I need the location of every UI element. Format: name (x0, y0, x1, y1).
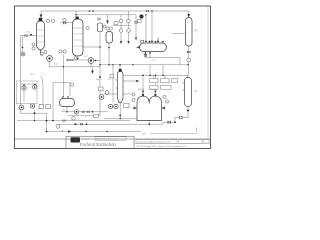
wire drop to column C-105 (188, 11, 190, 14)
drum V-104 horizontal (140, 43, 167, 52)
wire bottom run y131.5 (47, 131, 142, 133)
instrument box left of C-104 (110, 75, 114, 78)
wire drop to dome 2 (154, 75, 156, 90)
column C-106 (185, 78, 192, 107)
arrow drop x107.5 (106, 21, 109, 25)
bubbles top center on risers (119, 19, 123, 23)
junction dot y35.5 (30, 34, 32, 36)
svg-text:PK-2: PK-2 (30, 74, 36, 76)
wire valve branch y35.5 (21, 35, 37, 37)
wire to dome vessel side (120, 118, 137, 120)
wire C-106 feed stub (187, 74, 189, 78)
instrument bubble y118 (72, 117, 76, 121)
junction dot x46.5 y120.6 (46, 120, 48, 122)
left pump row bottom: pump P-106 (19, 105, 24, 110)
wire drop to column C-101 (40, 11, 42, 15)
wire left pump row links (21, 110, 47, 121)
wire top header y14.8 (76, 14, 136, 16)
junction dots various (145, 14, 146, 15)
wire bottom run y120.6 (17, 120, 130, 122)
pump P-103 (74, 110, 79, 115)
wire K nozzle riser (63, 55, 65, 97)
arrow down x92.5 (91, 71, 94, 75)
drum V-105 horizontal (60, 99, 75, 107)
wire drum V-104 nozzle drop x146 (145, 15, 147, 42)
border frame (15, 6, 211, 149)
small box x114 (114, 22, 118, 25)
instrument bubble near V-105 (70, 83, 73, 86)
wire column C-104 bottom (119, 103, 121, 116)
instrument box cluster right-center row1 (150, 79, 178, 83)
wire link y94 left of R-101 (104, 93, 132, 95)
wire valve chain y60 (66, 59, 88, 61)
wire arrow stub x92.5 (92, 67, 94, 71)
instrument bubbles top of C-101 (46, 19, 49, 22)
dome vessel R-101 body (137, 96, 162, 120)
arrow on y124.2 (75, 123, 79, 125)
tiny labels (26, 30, 198, 136)
wire drop x121 (120, 15, 122, 41)
column C-104 cap (119, 69, 122, 72)
wire C-105 side line y33.5 (172, 33, 186, 35)
wire riser x46.5 (46, 121, 48, 132)
wire x22.5 drop (22, 36, 24, 52)
junction dot y124.2 (86, 123, 88, 125)
junction dot x46.5 y131.5 (46, 131, 48, 133)
column C-104 center (118, 72, 124, 103)
wire link y25.5 (113, 25, 132, 27)
instrument bubbles left of R-101 (132, 93, 135, 102)
pump P-102 (88, 58, 94, 64)
wire drop to column C-104 cap (119, 65, 121, 69)
column C-101 (37, 21, 45, 50)
wire riser x34.5 (34, 110, 36, 121)
arrows at riser ends (120, 41, 122, 44)
instrument bubbles above P-101 (44, 51, 47, 54)
small box above title (95, 137, 126, 140)
wire center header y64.8 (100, 64, 189, 66)
title block frame (66, 135, 134, 137)
title block (66, 136, 211, 148)
title band top line (15, 138, 211, 140)
instrument box y114.5 (94, 114, 99, 117)
pump P-109 (33, 85, 37, 89)
svg-text:VE-4: VE-4 (96, 79, 102, 81)
wire drum V-104 nozzle stub x158 (157, 38, 159, 42)
equipment rect 1 (39, 105, 44, 109)
junction dot C-104 bottom (119, 115, 121, 117)
instrument box cluster right-center row2 (150, 85, 172, 89)
wire P-102 discharge link (94, 60, 100, 62)
instrument bubble y126 (56, 124, 60, 128)
instrument bubbles left of C-101 (32, 43, 35, 46)
wire column C-102 bottoms (77, 56, 79, 60)
wire valve leg right (175, 118, 179, 123)
wire column C-105 bottom (188, 46, 190, 65)
arrows into domes (142, 91, 144, 94)
wire enclosure inner vertical (23, 90, 25, 101)
column C-101 boot line (40, 50, 42, 53)
column C-102 cap (75, 17, 78, 20)
small valve cluster x124 (124, 104, 130, 108)
small box right of risers (138, 20, 142, 23)
junction dots V-104 outlets (145, 52, 147, 54)
vessel V-102 small (98, 23, 103, 32)
junction dot C-102 bottom (77, 58, 79, 60)
valves on pump row (82, 111, 85, 113)
pump P-110 (108, 104, 112, 108)
valve on drop x99 (98, 17, 101, 20)
junction dot x100 y77 (99, 76, 101, 78)
dome fittings R-101 (142, 94, 144, 96)
wire drum V-105 feed (53, 83, 70, 121)
equipment rect 2 (46, 105, 51, 109)
valve on y120.6 (63, 119, 66, 121)
column C-102 (73, 19, 84, 56)
valve cluster y35.5 (25, 34, 28, 36)
pump P-104 (99, 95, 104, 100)
drum V-104 left fitting (141, 40, 144, 43)
junction dots y131.5 (85, 131, 86, 132)
junction dot x34.5 (34, 112, 36, 114)
wire pump P-101 discharge (49, 61, 51, 66)
wire top header y11 (41, 10, 189, 12)
wire B valve branch y22.5 (60, 22, 73, 24)
junction dots above pumps (23, 85, 24, 86)
instrument under C-105 (187, 58, 191, 62)
arrow on y131.5 (68, 130, 72, 132)
wire bottom run y57.5 (146, 58, 181, 65)
wire drop x128.5 (128, 11, 130, 41)
junction dot right of P-102 (95, 60, 97, 62)
pump P-105 (105, 91, 109, 95)
valve left of R-101 (134, 107, 138, 110)
instrument bubbles V-103 (106, 27, 113, 30)
valve on y122 run (168, 121, 172, 124)
drum V-104 nozzle stubs (150, 39, 164, 44)
svg-text:Stage 4: Stage 4 (82, 138, 89, 141)
pump enclosure box (17, 81, 38, 104)
tick on y131.5 (62, 130, 64, 132)
wire pump row y111.8 (62, 111, 109, 113)
valve V-104 outlet 1 (144, 54, 147, 56)
column C-101 cap (39, 18, 43, 21)
wire drum V-104 nozzle drop x152 (151, 11, 153, 41)
wire drop x136 (135, 15, 137, 38)
svg-text:MV-12: MV-12 (150, 89, 157, 91)
valve cluster left of C-102 (63, 18, 66, 21)
pump P-107 (30, 104, 34, 108)
instrument bubble right of C-102 (86, 26, 89, 29)
junction dot V-103 drop (108, 47, 110, 49)
arrow into C-105 (187, 14, 190, 18)
right info row 1 (136, 140, 177, 143)
wire left header x20.5 (20, 36, 22, 106)
logo (71, 137, 81, 142)
right info divider (134, 142, 211, 144)
arrow into C-101 (40, 15, 43, 19)
instrument bubbles right of R-101 (163, 95, 169, 103)
valve right of R-101 (162, 107, 166, 110)
wire H side branch y81 (123, 80, 136, 82)
wire drop to dome 1 (142, 75, 144, 90)
wire faint run y133.5 (150, 128, 197, 134)
wire x113 vertical (112, 65, 114, 102)
valves on chain y60 (67, 59, 70, 61)
wire x100 vertical (99, 32, 101, 116)
small pump left x23 (21, 52, 25, 56)
valve under C-105 (187, 51, 190, 53)
junction dot x22.5 (22, 47, 24, 49)
instrument bubbles x104-108 y26 (103, 25, 106, 28)
pump P-101 (47, 56, 53, 62)
valve on y124.2 (80, 123, 83, 125)
wire bottom run y124.2 (57, 122, 175, 124)
small bubble on chain (74, 57, 77, 60)
arrow at V-104 left (136, 46, 140, 48)
junction dot x133 header (132, 64, 133, 65)
arrow on H side branch (136, 80, 139, 82)
dark pump circle top (139, 14, 143, 18)
arrow at riser x136 end (135, 38, 137, 41)
svg-text:Continuous distillery, Furfuro: Continuous distillery, Furfurol 12,5 t/h (137, 141, 170, 144)
wire header drops to boxes (149, 65, 151, 76)
inner margin line right (207, 7, 209, 140)
svg-text:S.M. RPI Design 2007. General:: S.M. RPI Design 2007. General: 220 kV he… (137, 146, 188, 148)
wire drum V-105 outlet (66, 107, 68, 112)
wire mid header y66.8 (50, 66, 101, 68)
drum V-105 nozzle dots (62, 96, 64, 98)
wire drum V-104 outlet 2 (149, 52, 151, 58)
right info small box (203, 140, 209, 143)
small rect cluster x98 (99, 87, 104, 91)
wire pump P-102 discharge (90, 63, 92, 66)
svg-text:MV-11: MV-11 (138, 89, 145, 91)
valve on drop x136 (135, 21, 138, 24)
column C-106 nozzle stubs (183, 82, 185, 84)
wire column C-106 bottom (183, 107, 188, 118)
wire enclosure inner line y84 (20, 83, 37, 85)
drum V-104 nozzle dots (145, 41, 164, 43)
wire drum V-104 outlet 1 (145, 52, 147, 58)
wire C-102 side branch y47 (83, 46, 100, 48)
junction dot under C-106 (187, 110, 189, 112)
svg-text:Furfurol Extraction: Furfurol Extraction (80, 142, 116, 147)
column C-105 (186, 18, 193, 47)
wire x188 link (187, 65, 189, 74)
svg-text:Hydrocarbon Proc. Inst.: Hydrocarbon Proc. Inst. (96, 138, 117, 141)
valve bottom right (179, 116, 183, 119)
wire dome vessel bottom outlet (148, 121, 150, 125)
pump P-111 (114, 104, 118, 108)
junction dots center header (108, 64, 110, 66)
wire curved pipe (41, 76, 44, 105)
pump P-108 (22, 86, 26, 90)
junction dots top header (89, 10, 91, 12)
junction dot y122 (174, 121, 176, 123)
svg-text:E-12: E-12 (54, 64, 59, 66)
wire instrument row y115.8 (68, 115, 100, 117)
wire bottom jog y118.8 (104, 116, 120, 119)
drum V-103 (106, 32, 113, 44)
instrument bubbles near C-102 bottom (59, 50, 62, 53)
wire pump P-101 suction (41, 50, 44, 56)
valve on top header x147.5 (146, 10, 149, 12)
wire center header y75.3 (123, 75, 188, 77)
wire drop to column C-102 (75, 11, 77, 17)
column C-104 side stubs (116, 79, 118, 81)
wire x109 drop from drum V-103 (108, 43, 110, 65)
